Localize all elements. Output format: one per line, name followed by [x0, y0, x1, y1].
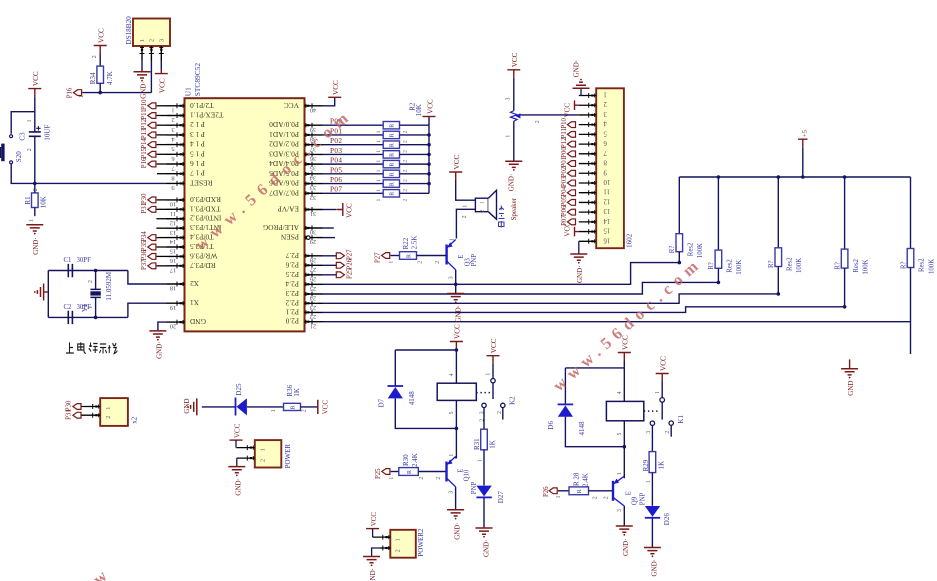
svg-text:P15: P15	[141, 147, 148, 158]
resistor R36 body	[284, 403, 301, 410]
svg-text:P11: P11	[141, 109, 148, 119]
switch K2 terminal 1	[491, 379, 495, 383]
wire VCC to POWER2 pin1	[372, 529, 374, 538]
svg-text:6: 6	[171, 155, 174, 162]
svg-text:2: 2	[418, 261, 424, 264]
port P03 1602 pin10	[567, 180, 575, 186]
power VCC POWER2	[366, 528, 379, 530]
potentiometer R? zigzag	[510, 111, 517, 122]
pot bottom wire	[513, 121, 515, 161]
svg-text:R?: R?	[768, 260, 775, 268]
port P06 1602 pin13	[567, 209, 575, 215]
svg-text:1: 1	[376, 140, 382, 143]
port P04 1602 pin11	[567, 190, 575, 196]
power VCC EA	[337, 203, 343, 216]
svg-text:P04: P04	[330, 157, 342, 165]
switch K1 lever	[661, 402, 663, 419]
svg-text:P 1 4: P 1 4	[190, 140, 205, 149]
wire S20 bottom branch	[11, 164, 35, 184]
resistor R2 element 7	[383, 180, 399, 187]
svg-text:Q10: Q10	[464, 469, 471, 481]
switch K2 terminal 2 left	[482, 403, 486, 407]
svg-text:R: R	[390, 124, 396, 128]
svg-text:20: 20	[170, 323, 176, 330]
svg-text:1602: 1602	[626, 233, 634, 248]
port P01 1602 pin8	[567, 161, 575, 167]
svg-text:PNP: PNP	[471, 254, 478, 267]
svg-text:P30: P30	[141, 193, 148, 204]
wire K1 VCC to terminal	[661, 382, 663, 398]
svg-text:17: 17	[169, 266, 176, 273]
resistor R1 body	[32, 193, 39, 208]
svg-text:P2.1: P2.1	[285, 307, 299, 316]
wire +5 stem	[802, 147, 804, 177]
resistor R29 body	[649, 452, 656, 473]
svg-text:P2.4: P2.4	[285, 279, 299, 288]
svg-text:R: R	[390, 133, 396, 137]
port P36 with wire	[157, 255, 167, 257]
svg-text:GND·: GND·	[234, 478, 242, 496]
svg-text:ALE/PROG: ALE/PROG	[262, 223, 299, 232]
svg-text:12: 12	[170, 219, 176, 226]
switch K2 lever	[492, 383, 494, 399]
wire P1.7 stub	[157, 173, 167, 175]
junction P2.1 pullup	[843, 305, 847, 309]
svg-text:2: 2	[497, 411, 503, 414]
junction pullup rail	[843, 175, 847, 179]
svg-text:2: 2	[149, 39, 156, 42]
svg-text:29: 29	[310, 238, 316, 245]
svg-text:2: 2	[535, 120, 541, 123]
relay JK2 body	[606, 401, 643, 420]
svg-text:P03: P03	[330, 147, 342, 155]
svg-text:1: 1	[449, 454, 455, 457]
svg-text:10UF: 10UF	[44, 125, 52, 141]
switch S20 bottom terminal	[10, 161, 13, 164]
svg-text:P31: P31	[66, 409, 73, 420]
port P16	[74, 90, 82, 96]
svg-text:13: 13	[603, 207, 610, 214]
svg-text:2: 2	[462, 215, 468, 218]
svg-text:33: 33	[310, 184, 316, 191]
wire PSEN stub	[323, 237, 336, 239]
ground GND DS18B20	[134, 72, 151, 78]
svg-text:10K: 10K	[40, 196, 48, 208]
label power-on indicator chinese text	[66, 342, 117, 353]
power VCC relay2	[618, 353, 631, 361]
wire D27 to ground	[483, 497, 485, 528]
svg-text:32: 32	[310, 194, 316, 201]
transistor Q10 PNP	[447, 457, 456, 487]
svg-text:Speaker: Speaker	[510, 197, 518, 220]
svg-text:X1: X1	[190, 298, 199, 307]
wire K2 VCC to terminal	[492, 364, 494, 379]
svg-text:8: 8	[171, 174, 174, 181]
diode D26	[645, 506, 660, 517]
wire crystal left vertical	[47, 271, 49, 318]
svg-text:P02: P02	[561, 166, 568, 177]
IC U1 STC89C52 body	[185, 98, 305, 331]
U1 left pin stubs and root marks	[167, 105, 185, 107]
port P31 x2	[73, 412, 81, 418]
wire VCC to POWER pin1	[235, 440, 237, 448]
junction reset node	[33, 182, 37, 186]
Q9 collector wire	[623, 506, 625, 526]
svg-text:15: 15	[170, 248, 176, 255]
wire P27 to R22	[390, 255, 399, 257]
ground GND POWER2	[363, 557, 380, 563]
svg-text:2.4K: 2.4K	[411, 453, 419, 467]
ground GND D25	[191, 398, 197, 415]
svg-text:P0.1/AD1: P0.1/AD1	[269, 130, 299, 139]
wire VCC to C3	[34, 97, 36, 132]
POWER pin stubs	[237, 447, 255, 449]
wire C3 to reset node	[34, 136, 36, 183]
svg-text:3: 3	[171, 126, 174, 133]
svg-text:VCC: VCC	[332, 80, 340, 95]
svg-text:7: 7	[603, 149, 607, 156]
wire P0.7 to network	[323, 192, 384, 194]
svg-text:1: 1	[171, 106, 174, 113]
svg-text:P26: P26	[543, 486, 550, 497]
wire +5 rail	[679, 176, 910, 178]
svg-text:R: R	[577, 489, 583, 493]
svg-text:Q9: Q9	[632, 496, 639, 505]
svg-text:D7: D7	[377, 398, 385, 407]
wire R30 to Q10 base	[418, 471, 446, 473]
relay JK1 body	[437, 383, 476, 400]
svg-text:Res2: Res2	[727, 259, 734, 273]
svg-text:40: 40	[310, 106, 316, 113]
svg-text:GND·: GND·	[155, 341, 163, 359]
svg-text:2.5K: 2.5K	[411, 236, 419, 250]
svg-text:1: 1	[139, 39, 146, 42]
svg-text:2.4K: 2.4K	[581, 473, 589, 487]
junction +5 rail	[801, 175, 805, 179]
svg-text:1: 1	[395, 538, 402, 541]
svg-text:2: 2	[436, 477, 442, 480]
ground GND 1602 bottom	[570, 254, 587, 260]
svg-text:8: 8	[603, 159, 607, 166]
svg-text:3: 3	[505, 97, 511, 100]
svg-text:9: 9	[171, 184, 174, 191]
svg-text:P 1 3: P 1 3	[190, 130, 205, 139]
wire R22 to Q3 base	[417, 255, 447, 257]
resistor R? pullup 1 top lead	[678, 177, 680, 234]
port P02 1602 pin9	[567, 170, 575, 176]
wire RESET to reset circuit	[35, 182, 167, 184]
svg-text:GND·: GND·	[650, 559, 658, 577]
svg-text:11: 11	[170, 210, 176, 217]
svg-text:R29: R29	[642, 459, 650, 471]
wire P2.3 long	[323, 282, 719, 294]
ground GND pot	[505, 161, 522, 167]
wire pin40 to VCC	[323, 97, 335, 106]
svg-text:U1: U1	[184, 87, 193, 96]
svg-text:10: 10	[170, 201, 176, 208]
svg-text:R30: R30	[402, 454, 410, 466]
power VCC POWER	[230, 439, 243, 441]
svg-text:3: 3	[158, 39, 165, 42]
svg-text:1: 1	[604, 91, 607, 98]
wire P26 to R28	[558, 490, 569, 492]
ground GND Q9	[616, 526, 633, 532]
wire X2 riser	[128, 271, 167, 285]
svg-text:GND: GND	[189, 317, 206, 326]
svg-text:RD/P3.7: RD/P3.7	[190, 261, 216, 270]
junction network bus	[427, 153, 431, 157]
svg-text:1K: 1K	[489, 440, 497, 449]
svg-text:P2.6: P2.6	[285, 260, 299, 269]
svg-text:R?: R?	[834, 262, 841, 270]
svg-text:1: 1	[259, 448, 266, 451]
junction Q3 collector on P2.4 wire	[454, 283, 458, 287]
svg-text:10: 10	[603, 178, 610, 185]
wire P0.4 to network	[323, 163, 384, 165]
resistor R? pullup 3 body	[775, 248, 782, 267]
transistor Q9 PNP	[613, 476, 624, 506]
svg-text:2: 2	[403, 189, 409, 192]
1602 pin16 wire to ground	[578, 241, 580, 254]
svg-text:P2.5: P2.5	[285, 270, 299, 279]
svg-text:VCC: VCC	[454, 324, 462, 339]
svg-text:VCC: VCC	[490, 338, 498, 353]
wire bus to VCC	[428, 117, 430, 126]
port P12 1602 pin6	[567, 141, 575, 147]
Q10 collector wire	[455, 487, 457, 510]
port P37 with wire	[157, 265, 167, 267]
wire network bus vertical	[428, 125, 430, 193]
wire VCC relay2 down	[623, 361, 625, 368]
svg-text:1: 1	[505, 135, 511, 138]
svg-text:100K: 100K	[928, 259, 935, 274]
svg-text:GND·: GND·	[576, 266, 584, 284]
svg-text:R: R	[407, 470, 413, 474]
svg-text:Res2: Res2	[853, 258, 860, 272]
U1 right pin stubs and root marks	[305, 105, 323, 107]
diode D7 top wire	[394, 350, 396, 386]
svg-text:C2: C2	[64, 304, 73, 311]
resistor R30 body	[399, 468, 419, 476]
port P27 at IC	[323, 255, 341, 257]
svg-text:1: 1	[389, 261, 395, 264]
svg-text:2: 2	[259, 459, 266, 462]
svg-text:GND·: GND·	[369, 568, 377, 581]
ground GND D26	[644, 548, 661, 554]
relay2 dotted link	[644, 410, 659, 412]
svg-text:14: 14	[603, 217, 610, 224]
svg-text:11: 11	[604, 188, 611, 195]
svg-text:P31: P31	[141, 203, 148, 214]
wire P0.2 to network	[323, 144, 384, 146]
junction R34-P16	[98, 91, 102, 95]
svg-text:1: 1	[556, 495, 562, 498]
svg-text:1: 1	[105, 407, 112, 410]
svg-text:2: 2	[403, 150, 409, 153]
svg-text:P03: P03	[561, 176, 568, 187]
svg-text:RXD/P3.0: RXD/P3.0	[190, 195, 221, 204]
svg-text:P06: P06	[330, 176, 342, 184]
svg-text:35: 35	[310, 165, 316, 172]
wire VCC to pot	[513, 78, 515, 111]
svg-text:VCC: VCC	[284, 101, 299, 110]
svg-text:C1: C1	[64, 257, 72, 264]
port P27 speaker	[382, 253, 390, 259]
svg-text:18: 18	[170, 285, 176, 292]
crystal Y1 body	[90, 289, 100, 297]
switch S20 top terminal	[10, 135, 13, 138]
svg-text:25: 25	[310, 285, 316, 292]
svg-text:2: 2	[403, 160, 409, 163]
pullup 1 bottom lead	[678, 252, 680, 263]
junction network bus	[427, 143, 431, 147]
junction P2.3 pullup	[717, 281, 721, 285]
svg-text:P 1 2: P 1 2	[190, 120, 205, 129]
svg-text:1: 1	[79, 95, 85, 98]
switch K1 terminal right	[669, 421, 673, 425]
svg-text:P25: P25	[347, 268, 354, 279]
wire relay1 pin4	[455, 350, 457, 383]
svg-text:27: 27	[309, 266, 316, 273]
wire P25 to R30	[391, 471, 399, 473]
relay1 dotted link	[476, 392, 490, 394]
svg-text:R: R	[406, 254, 412, 258]
svg-text:2: 2	[88, 280, 94, 283]
speaker LS1 horn	[488, 190, 496, 219]
svg-text:3: 3	[617, 509, 623, 512]
svg-text:22: 22	[310, 313, 316, 320]
DS18B20 pin1 wire to ground	[141, 61, 143, 72]
power VCC pin40	[328, 96, 341, 98]
svg-text:2: 2	[27, 148, 33, 151]
svg-text:100K: 100K	[862, 259, 869, 274]
junction pullup rail	[717, 175, 721, 179]
svg-text:4: 4	[603, 120, 607, 127]
svg-text:+5: +5	[801, 129, 808, 137]
pullup 2 bottom lead	[717, 268, 719, 282]
svg-text:21: 21	[310, 322, 316, 329]
switch K1 terminal 1	[660, 398, 665, 403]
ground GND pin20	[149, 331, 166, 337]
junction network bus	[427, 162, 431, 166]
crystal Y1 bottom lead	[95, 297, 97, 317]
wire P33 stub	[156, 227, 166, 229]
wire K1 to R29	[651, 425, 653, 451]
resistor R28 body	[569, 487, 589, 495]
svg-text:P 1 6: P 1 6	[190, 159, 205, 168]
svg-text:VCC: VCC	[659, 356, 667, 371]
diode D7 4148	[388, 385, 404, 387]
power VCC 1602 pin2	[575, 100, 579, 110]
svg-text:R?: R?	[900, 261, 907, 269]
svg-text:11.0592M: 11.0592M	[105, 271, 113, 300]
svg-text:4148: 4148	[578, 421, 586, 436]
diode D6 top wire	[564, 368, 566, 404]
svg-text:P05: P05	[561, 195, 568, 206]
svg-text:D6: D6	[547, 421, 555, 430]
power VCC D25 row	[317, 400, 319, 414]
junction D6 relay2 pin5	[623, 445, 627, 449]
svg-text:2: 2	[403, 140, 409, 143]
svg-text:D26: D26	[663, 513, 671, 526]
svg-text:R?: R?	[669, 246, 676, 254]
thermometer DS18B20 body	[133, 19, 170, 47]
svg-text:3: 3	[603, 110, 607, 117]
wire K2 to R31	[483, 408, 485, 430]
R2 element 6 right lead	[400, 173, 430, 175]
port P35 with wire	[157, 246, 167, 248]
port P25 at IC	[323, 274, 341, 276]
R34 top lead	[99, 54, 101, 67]
resistor R? pullup 3 top lead	[777, 177, 779, 248]
svg-text:1: 1	[617, 472, 623, 475]
wire S20 top branch	[11, 112, 35, 134]
svg-text:1: 1	[376, 199, 382, 202]
resistor R31 body	[481, 429, 488, 450]
wire D26 to ground	[651, 518, 653, 548]
wire R31 to D27	[483, 450, 485, 486]
svg-text:1: 1	[463, 205, 469, 208]
svg-text:GND: GND	[183, 398, 191, 413]
x2 pin stubs	[81, 406, 100, 408]
svg-text:1: 1	[389, 477, 395, 480]
port P11 1602 pin5	[567, 131, 575, 137]
svg-text:P12: P12	[561, 137, 568, 148]
R2 element 7 right lead	[400, 183, 430, 185]
svg-text:2: 2	[480, 209, 486, 212]
junction crystal top	[94, 269, 98, 273]
svg-text:P04: P04	[561, 186, 568, 197]
ground GND 1602 top	[573, 82, 590, 88]
wire P0.0 to network	[323, 124, 384, 126]
D6 bottom wire	[565, 417, 624, 447]
svg-text:1: 1	[655, 391, 661, 394]
svg-text:4148: 4148	[408, 391, 416, 406]
wire D25 to R36	[247, 406, 284, 408]
pot wiper arrow	[515, 113, 520, 118]
svg-text:S20: S20	[15, 151, 23, 162]
svg-text:VCC: VCC	[370, 512, 378, 527]
svg-text:EA/VP: EA/VP	[278, 205, 299, 214]
port P31 with wire	[157, 208, 167, 210]
svg-text:VCC: VCC	[427, 99, 435, 114]
wire P2.1 long	[323, 307, 845, 313]
svg-text:1K: 1K	[658, 461, 666, 470]
ground GND floating right	[849, 359, 851, 368]
svg-text:GND·: GND·	[32, 237, 40, 255]
port P30 x2	[73, 404, 81, 410]
wire P32 stub	[156, 218, 166, 220]
resistor R34 body	[97, 66, 104, 83]
svg-text:VCC: VCC	[511, 52, 519, 67]
junction network bus	[427, 172, 431, 176]
Q3 collector wire	[455, 270, 457, 285]
svg-text:2: 2	[435, 261, 441, 264]
svg-text:C3: C3	[19, 132, 27, 141]
svg-text:100K: 100K	[796, 258, 803, 273]
port P00 1602 pin7	[567, 151, 575, 157]
svg-text:2: 2	[603, 100, 607, 107]
resistor R? pullup 5 top lead	[910, 177, 912, 249]
power VCC network	[423, 116, 436, 118]
svg-text:P2.7: P2.7	[285, 251, 299, 260]
power VCC pot	[507, 70, 520, 78]
svg-text:2: 2	[105, 416, 112, 419]
svg-text:Res2: Res2	[919, 258, 926, 272]
ground GND POWER	[228, 467, 245, 473]
svg-text:GND·: GND·	[483, 540, 491, 558]
svg-text:VCC: VCC	[563, 222, 571, 237]
